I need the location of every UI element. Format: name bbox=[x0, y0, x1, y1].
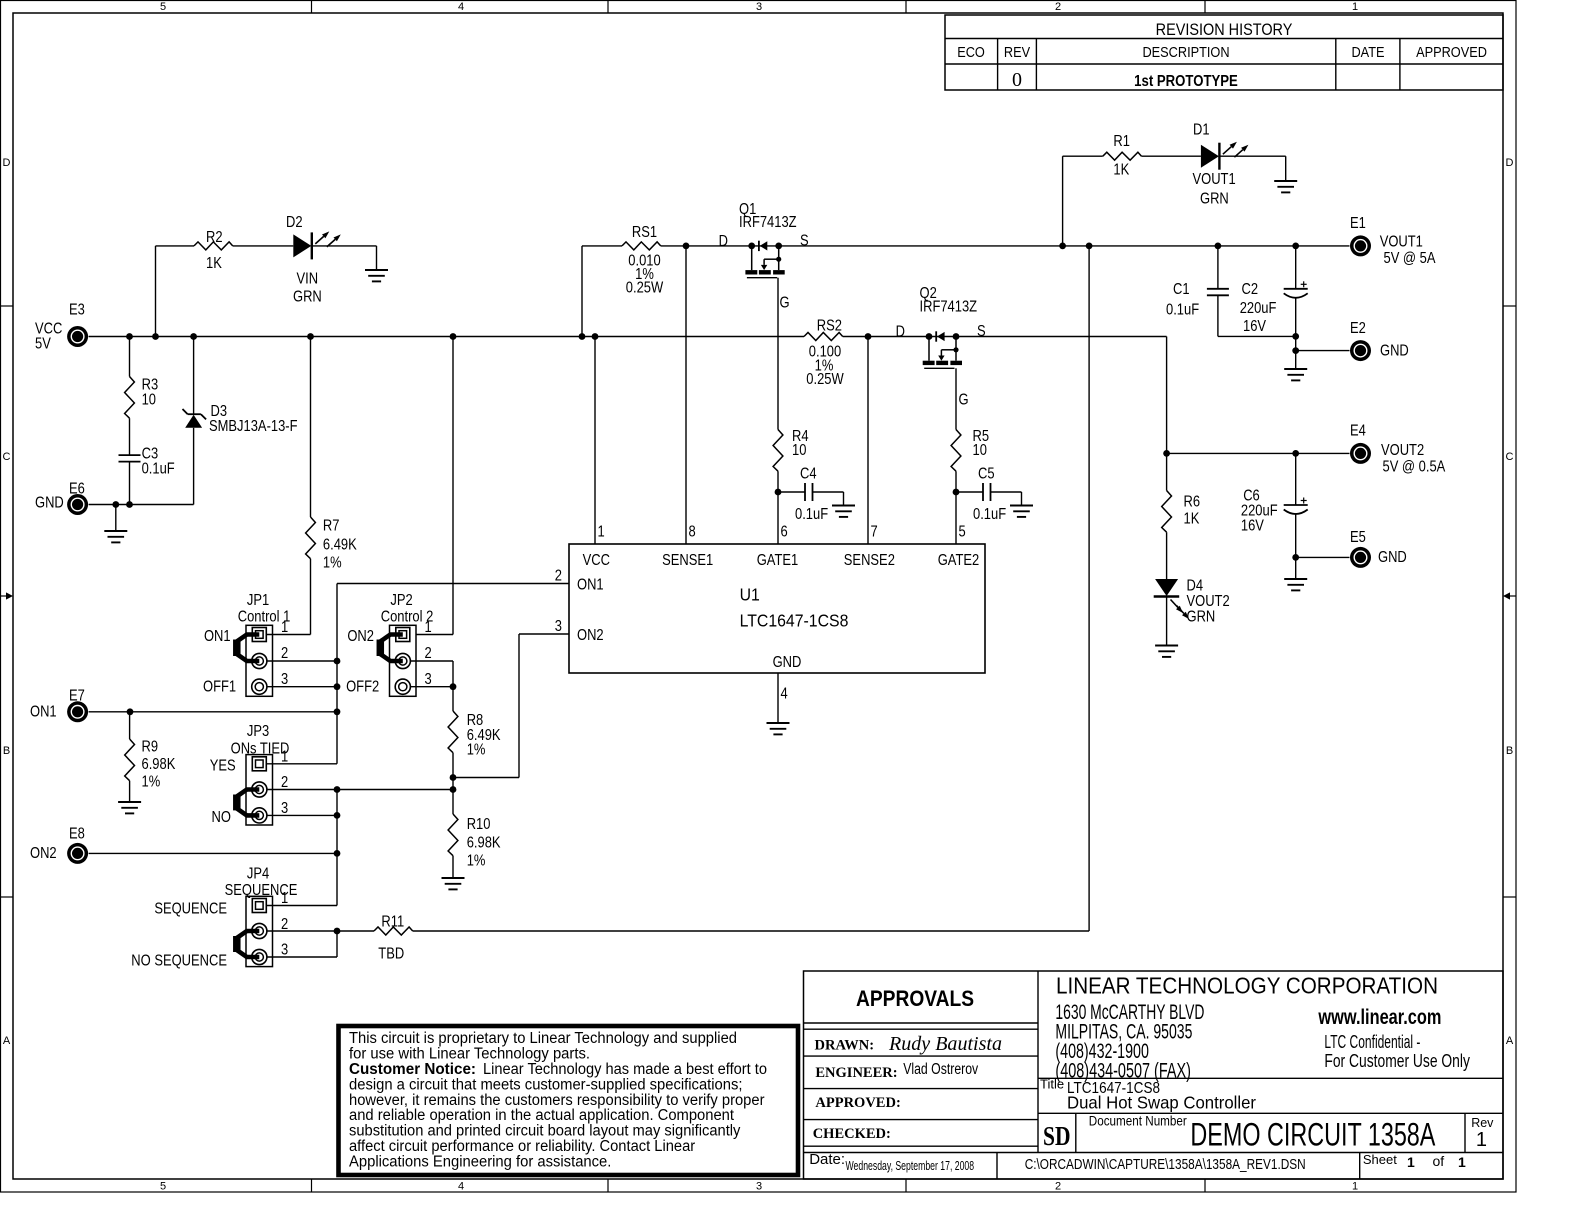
svg-text:R11: R11 bbox=[381, 913, 404, 931]
svg-text:1%: 1% bbox=[323, 554, 342, 572]
svg-text:ON1: ON1 bbox=[577, 576, 604, 594]
svg-text:6: 6 bbox=[781, 523, 788, 541]
svg-text:REV: REV bbox=[1004, 43, 1031, 60]
svg-text:3: 3 bbox=[756, 1181, 762, 1193]
svg-text:GRN: GRN bbox=[293, 288, 322, 306]
svg-text:D: D bbox=[3, 157, 11, 169]
svg-text:0.1uF: 0.1uF bbox=[795, 506, 828, 524]
svg-text:5V: 5V bbox=[35, 335, 51, 353]
svg-text:4: 4 bbox=[781, 685, 788, 703]
svg-text:1: 1 bbox=[425, 619, 432, 637]
svg-text:APPROVALS: APPROVALS bbox=[856, 986, 974, 1011]
wire E7 to ON1 net bbox=[89, 711, 337, 713]
svg-text:GATE2: GATE2 bbox=[938, 552, 980, 570]
svg-text:5V @ 0.5A: 5V @ 0.5A bbox=[1383, 458, 1446, 476]
svg-text:1%: 1% bbox=[467, 741, 486, 759]
svg-text:1: 1 bbox=[1458, 1154, 1466, 1170]
svg-text:OFF1: OFF1 bbox=[203, 678, 236, 696]
resistor R2 1K bbox=[155, 246, 157, 337]
svg-text:D2: D2 bbox=[286, 214, 303, 232]
terminal E2 GND bbox=[1350, 340, 1371, 361]
ground at U1 pin 4 bbox=[767, 722, 790, 724]
terminal E6 GND bbox=[67, 494, 88, 515]
svg-text:R1: R1 bbox=[1113, 133, 1130, 151]
ground at R9 bbox=[118, 801, 141, 803]
svg-text:ON2: ON2 bbox=[347, 628, 374, 646]
revision history table bbox=[945, 15, 1503, 90]
resistor R6 1K bbox=[1162, 491, 1172, 533]
svg-text:substitution and printed circu: substitution and printed circuit board l… bbox=[349, 1123, 741, 1140]
svg-text:6.98K: 6.98K bbox=[142, 756, 176, 774]
svg-text:E2: E2 bbox=[1350, 320, 1366, 338]
svg-text:2: 2 bbox=[425, 645, 432, 663]
capacitor C1 0.1uF bbox=[1217, 246, 1219, 289]
svg-text:GND: GND bbox=[1380, 342, 1409, 360]
wire JP2 pins 2-3 to R8 bbox=[410, 660, 453, 662]
capacitor C6 220uF 16V bbox=[1295, 453, 1297, 505]
wire R7 to JP1 pin 1 bbox=[267, 634, 311, 636]
svg-text:SD: SD bbox=[1043, 1121, 1071, 1151]
svg-text:2: 2 bbox=[281, 645, 288, 663]
wire ON1 net: U1 pin 2 to JP1/JP3/E7 bbox=[337, 583, 569, 585]
svg-text:A: A bbox=[3, 1035, 11, 1047]
svg-text:S: S bbox=[800, 232, 809, 250]
svg-text:APPROVED: APPROVED bbox=[1416, 43, 1487, 60]
wire JP3 pin 1 bbox=[267, 763, 337, 765]
LED D1 VOUT1 GRN bbox=[1201, 145, 1219, 168]
svg-text:C:\ORCADWIN\CAPTURE\1358A\1358: C:\ORCADWIN\CAPTURE\1358A\1358A_REV1.DSN bbox=[1025, 1156, 1306, 1173]
svg-text:VOUT1: VOUT1 bbox=[1380, 233, 1423, 251]
svg-text:10: 10 bbox=[142, 391, 156, 409]
svg-text:E6: E6 bbox=[69, 481, 85, 499]
svg-text:0.1uF: 0.1uF bbox=[1166, 301, 1199, 319]
svg-text:This circuit is proprietary to: This circuit is proprietary to Linear Te… bbox=[349, 1030, 737, 1047]
svg-text:5: 5 bbox=[160, 1, 166, 13]
svg-text:Applications Engineering for a: Applications Engineering for assistance. bbox=[349, 1154, 611, 1171]
terminal E4 VOUT2 5V @ 0.5A bbox=[1350, 443, 1371, 464]
svg-text:6.49K: 6.49K bbox=[323, 536, 357, 554]
svg-text:0.25W: 0.25W bbox=[806, 371, 844, 389]
wire JP1 pin 3 bbox=[267, 686, 337, 688]
terminal E5 GND bbox=[1350, 547, 1371, 568]
svg-text:E5: E5 bbox=[1350, 529, 1366, 547]
wire VOUT1 top rail from RS1 to E1 bbox=[582, 245, 622, 247]
svg-text:1: 1 bbox=[281, 890, 288, 908]
svg-text:VCC: VCC bbox=[583, 552, 610, 570]
resistor R1 1K bbox=[1103, 152, 1142, 160]
svg-text:U1: U1 bbox=[740, 585, 760, 605]
svg-text:ON2: ON2 bbox=[577, 627, 604, 645]
svg-text:NO: NO bbox=[211, 809, 230, 827]
svg-text:1: 1 bbox=[1407, 1154, 1415, 1170]
svg-text:NO SEQUENCE: NO SEQUENCE bbox=[131, 952, 227, 970]
svg-text:Sheet: Sheet bbox=[1363, 1152, 1397, 1167]
svg-text:JP3: JP3 bbox=[247, 723, 269, 741]
svg-text:GND: GND bbox=[773, 654, 802, 672]
svg-text:5: 5 bbox=[959, 523, 966, 541]
svg-text:A: A bbox=[1506, 1035, 1514, 1047]
svg-text:APPROVED:: APPROVED: bbox=[815, 1095, 900, 1111]
wire E8 to ON2 net bbox=[89, 852, 337, 854]
svg-text:RS1: RS1 bbox=[632, 224, 657, 242]
svg-text:G: G bbox=[959, 391, 969, 409]
svg-text:and reliable operation in the: and reliable operation in the actual app… bbox=[349, 1107, 735, 1124]
svg-text:REVISION HISTORY: REVISION HISTORY bbox=[1156, 21, 1293, 39]
svg-text:C1: C1 bbox=[1173, 281, 1190, 299]
svg-text:E7: E7 bbox=[69, 687, 85, 705]
svg-text:For Customer Use Only: For Customer Use Only bbox=[1324, 1051, 1470, 1071]
ground at D1 bbox=[1274, 180, 1297, 182]
svg-text:C4: C4 bbox=[800, 465, 817, 483]
LED D4 VOUT2 GRN bbox=[1155, 579, 1178, 596]
svg-text:8: 8 bbox=[689, 523, 696, 541]
resistor R3 10 bbox=[129, 337, 131, 377]
ground at C5 bbox=[1010, 505, 1033, 507]
wire JP4 pin 2 to R11 bbox=[267, 930, 374, 932]
svg-text:ECO: ECO bbox=[957, 43, 985, 60]
svg-text:10: 10 bbox=[792, 442, 806, 460]
svg-text:1: 1 bbox=[1352, 1181, 1358, 1193]
jumper JP2 Control 2 bbox=[390, 625, 417, 696]
svg-text:5V @ 5A: 5V @ 5A bbox=[1384, 250, 1436, 268]
resistor R8 6.49K 1% bbox=[448, 711, 458, 753]
wire JP4 pin 1 bbox=[267, 905, 337, 907]
svg-text:of: of bbox=[1433, 1153, 1445, 1169]
svg-text:1%: 1% bbox=[142, 773, 161, 791]
resistor R11 TBD bbox=[374, 927, 413, 935]
svg-text:ON1: ON1 bbox=[204, 628, 231, 646]
svg-text:C5: C5 bbox=[978, 465, 995, 483]
svg-text:DATE: DATE bbox=[1351, 43, 1384, 60]
svg-text:G: G bbox=[780, 294, 790, 312]
svg-text:0.1uF: 0.1uF bbox=[973, 506, 1006, 524]
wire D2 cathode to ground bbox=[312, 245, 377, 247]
svg-text:CHECKED:: CHECKED: bbox=[813, 1126, 891, 1142]
svg-text:LTC Confidential -: LTC Confidential - bbox=[1324, 1032, 1420, 1052]
svg-text:Dual Hot Swap Controller: Dual Hot Swap Controller bbox=[1067, 1093, 1256, 1113]
svg-text:D: D bbox=[896, 323, 905, 341]
svg-text:LTC1647-1CS8: LTC1647-1CS8 bbox=[740, 611, 849, 631]
svg-text:0: 0 bbox=[1012, 69, 1022, 91]
terminal E7 ON1 bbox=[67, 701, 88, 722]
svg-text:1: 1 bbox=[598, 523, 605, 541]
svg-text:JP2: JP2 bbox=[390, 592, 412, 610]
svg-text:GND: GND bbox=[1378, 549, 1407, 567]
capacitor C3 0.1uF bbox=[119, 454, 141, 456]
svg-text:R9: R9 bbox=[142, 738, 159, 756]
svg-text:TBD: TBD bbox=[378, 945, 404, 963]
svg-text:C: C bbox=[3, 451, 11, 463]
svg-text:E1: E1 bbox=[1350, 215, 1366, 233]
svg-text:VOUT1: VOUT1 bbox=[1193, 171, 1236, 189]
svg-text:3: 3 bbox=[281, 671, 288, 689]
svg-text:S: S bbox=[977, 323, 986, 341]
wire JP4 pin 3 tie to pin 2 bbox=[267, 956, 337, 958]
svg-text:C: C bbox=[1506, 451, 1514, 463]
resistor R9 6.98K 1% bbox=[129, 712, 131, 739]
svg-text:DEMO CIRCUIT 1358A: DEMO CIRCUIT 1358A bbox=[1190, 1117, 1435, 1153]
svg-text:1K: 1K bbox=[1113, 161, 1129, 179]
svg-text:R7: R7 bbox=[323, 517, 340, 535]
svg-text:DRAWN:: DRAWN: bbox=[815, 1038, 875, 1054]
svg-text:E8: E8 bbox=[69, 825, 85, 843]
svg-text:4: 4 bbox=[458, 1181, 464, 1193]
svg-text:OFF2: OFF2 bbox=[346, 678, 379, 696]
wire C1 to C2 ground link bbox=[1218, 335, 1296, 337]
svg-text:2: 2 bbox=[1055, 1181, 1061, 1193]
svg-text:Rudy Bautista: Rudy Bautista bbox=[888, 1033, 1002, 1055]
svg-text:2: 2 bbox=[1055, 1, 1061, 13]
svg-text:Title: Title bbox=[1040, 1077, 1064, 1092]
wire VCC to U1 pin 1 bbox=[594, 337, 596, 545]
svg-text:GRN: GRN bbox=[1200, 190, 1229, 208]
terminal E3 VCC 5V bbox=[67, 326, 88, 347]
svg-text:16V: 16V bbox=[1241, 517, 1264, 535]
svg-text:3: 3 bbox=[555, 618, 562, 636]
svg-text:VOUT2: VOUT2 bbox=[1381, 442, 1424, 460]
wire U1 pin 4 to ground bbox=[777, 673, 779, 723]
svg-text:SMBJ13A-13-F: SMBJ13A-13-F bbox=[209, 418, 298, 436]
resistor R7 6.49K 1% pull-up bbox=[310, 337, 312, 518]
svg-text:1st PROTOTYPE: 1st PROTOTYPE bbox=[1134, 73, 1238, 90]
terminal E1 VOUT1 5V @ 5A bbox=[1350, 235, 1371, 256]
title block frame bbox=[804, 971, 1504, 1179]
svg-text:IRF7413Z: IRF7413Z bbox=[739, 214, 797, 232]
sense resistor RS2 0.100 1% 0.25W bbox=[804, 333, 843, 341]
capacitor C5 0.1uF bbox=[956, 491, 983, 493]
wire E6 ground net bbox=[89, 504, 194, 506]
wire SENSE2 net (pin 7) bbox=[867, 337, 869, 545]
zener diode D3 SMBJ13A-13-F bbox=[193, 337, 195, 415]
jumper JP1 Control 1 bbox=[246, 625, 273, 696]
customer notice box bbox=[339, 1026, 799, 1175]
ground at C6 / E5 bbox=[1284, 578, 1307, 580]
ground at R10 bbox=[442, 877, 465, 879]
wire R1 branch from VOUT1 rail bbox=[1062, 156, 1064, 246]
svg-text:3: 3 bbox=[756, 1, 762, 13]
svg-text:DESCRIPTION: DESCRIPTION bbox=[1142, 43, 1229, 60]
wire D4 to ground bbox=[1166, 597, 1168, 646]
wire E2 to C2 bbox=[1296, 350, 1350, 352]
svg-text:Document Number: Document Number bbox=[1089, 1113, 1187, 1129]
svg-text:Vlad Ostrerov: Vlad Ostrerov bbox=[903, 1061, 978, 1078]
svg-text:GATE1: GATE1 bbox=[757, 552, 799, 570]
svg-text:6.98K: 6.98K bbox=[467, 834, 501, 852]
svg-text:1K: 1K bbox=[206, 255, 222, 273]
svg-text:www.linear.com: www.linear.com bbox=[1318, 1005, 1442, 1029]
wire VOUT2 rail from Q2 source corner to E4 bbox=[1167, 452, 1350, 454]
svg-text:16V: 16V bbox=[1243, 318, 1266, 336]
svg-text:2: 2 bbox=[555, 567, 562, 585]
ground at C2 / E2 bbox=[1284, 368, 1307, 370]
svg-text:R10: R10 bbox=[467, 816, 491, 834]
svg-text:R6: R6 bbox=[1184, 493, 1201, 511]
svg-text:SENSE2: SENSE2 bbox=[844, 552, 895, 570]
LED D2 VIN GRN bbox=[293, 234, 311, 257]
ground at D2 bbox=[365, 269, 388, 271]
ground at D4 bbox=[1155, 645, 1178, 647]
svg-text:SEQUENCE: SEQUENCE bbox=[154, 900, 227, 918]
wire ON2 net vertical JP3/E8/JP4 bbox=[336, 790, 338, 906]
wire D1 cathode to ground bbox=[1219, 155, 1285, 157]
capacitor C2 220uF 16V bbox=[1295, 246, 1297, 289]
svg-text:Wednesday, September 17, 2008: Wednesday, September 17, 2008 bbox=[846, 1158, 975, 1173]
jumper JP3 ONs TIED bbox=[246, 755, 273, 825]
svg-text:RS2: RS2 bbox=[817, 317, 842, 335]
svg-text:ON1: ON1 bbox=[30, 703, 57, 721]
wire R11 to VOUT1 rail (long return) bbox=[413, 930, 1089, 932]
svg-text:LINEAR TECHNOLOGY CORPORATION: LINEAR TECHNOLOGY CORPORATION bbox=[1056, 973, 1438, 999]
svg-text:B: B bbox=[3, 745, 10, 757]
svg-text:D: D bbox=[719, 233, 728, 251]
svg-text:ON2: ON2 bbox=[30, 845, 57, 863]
svg-text:3: 3 bbox=[281, 941, 288, 959]
svg-text:E3: E3 bbox=[69, 301, 85, 319]
svg-text:GRN: GRN bbox=[1187, 608, 1216, 626]
svg-text:220uF: 220uF bbox=[1240, 300, 1277, 318]
wire SENSE1 net (pin 8) bbox=[685, 246, 687, 544]
wire JP3 pin 3 bbox=[267, 814, 337, 816]
svg-text:1: 1 bbox=[1352, 1, 1358, 13]
wire JP3 pin 2 to R10 top bbox=[267, 789, 453, 791]
terminal E8 ON2 bbox=[67, 843, 88, 864]
sense resistor RS1 0.010 1% 0.25W bbox=[622, 242, 661, 250]
svg-text:YES: YES bbox=[210, 757, 236, 775]
svg-text:B: B bbox=[1506, 745, 1513, 757]
svg-text:VIN: VIN bbox=[297, 270, 319, 288]
svg-text:0.1uF: 0.1uF bbox=[142, 460, 175, 478]
svg-text:1: 1 bbox=[281, 619, 288, 637]
svg-text:Rev: Rev bbox=[1471, 1116, 1494, 1130]
svg-text:D1: D1 bbox=[1193, 121, 1210, 139]
svg-text:C2: C2 bbox=[1242, 281, 1259, 299]
capacitor C4 0.1uF bbox=[778, 491, 805, 493]
svg-text:10: 10 bbox=[973, 442, 987, 460]
svg-text:3: 3 bbox=[425, 671, 432, 689]
svg-text:JP4: JP4 bbox=[247, 865, 269, 883]
svg-text:0.25W: 0.25W bbox=[626, 279, 664, 297]
svg-text:4: 4 bbox=[458, 1, 464, 13]
wire GATE2 net with resistor R5 10 bbox=[955, 368, 957, 429]
svg-text:IRF7413Z: IRF7413Z bbox=[920, 298, 978, 316]
svg-text:Date:: Date: bbox=[809, 1151, 845, 1168]
wire VCC riser to JP2 pin 1 bbox=[452, 337, 454, 635]
svg-text:1%: 1% bbox=[467, 853, 486, 871]
svg-text:1K: 1K bbox=[1184, 510, 1200, 528]
svg-text:2: 2 bbox=[281, 774, 288, 792]
svg-text:1: 1 bbox=[1476, 1129, 1487, 1151]
svg-text:R2: R2 bbox=[206, 229, 223, 247]
svg-text:D: D bbox=[1506, 157, 1514, 169]
svg-text:5: 5 bbox=[160, 1181, 166, 1193]
svg-text:ENGINEER:: ENGINEER: bbox=[815, 1065, 897, 1081]
wire VCC 5V bus from E3 across sheet bbox=[89, 336, 804, 338]
jumper JP4 SEQUENCE bbox=[246, 896, 273, 966]
svg-text:7: 7 bbox=[871, 523, 878, 541]
wire JP1 pin 2 bbox=[267, 660, 337, 662]
resistor R10 6.98K 1% bbox=[452, 790, 454, 815]
wire E5 to C6 bbox=[1296, 556, 1350, 558]
wire GATE1 net with resistor R4 10 bbox=[777, 278, 779, 430]
svg-text:SENSE1: SENSE1 bbox=[662, 552, 713, 570]
IC U1 LTC1647-1CS8 bbox=[569, 544, 985, 673]
MOSFET Q1 IRF7413Z bbox=[748, 243, 755, 250]
ground at E6 bbox=[104, 530, 127, 532]
wire ON2 net: U1 pin 3 down to R8 bottom bbox=[519, 633, 569, 635]
svg-text:JP1: JP1 bbox=[247, 592, 269, 610]
MOSFET Q2 IRF7413Z bbox=[926, 333, 933, 340]
svg-text:GND: GND bbox=[35, 494, 64, 512]
ground at C4 bbox=[832, 505, 855, 507]
svg-text:design a circuit that meets cu: design a circuit that meets customer-sup… bbox=[349, 1076, 743, 1093]
svg-text:E4: E4 bbox=[1350, 422, 1366, 440]
